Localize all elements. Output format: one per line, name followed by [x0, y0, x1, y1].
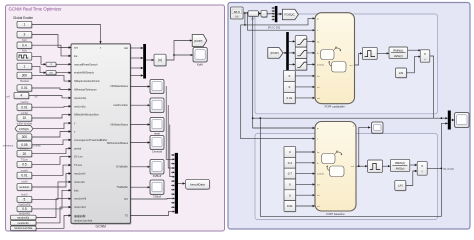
- wire junction to scope KpKi: [174, 54, 193, 56]
- svg-text:5: 5: [24, 198, 26, 202]
- constant 0.01 maxKp: [17, 104, 33, 111]
- svg-text:20: 20: [23, 152, 27, 156]
- svg-text:0.01: 0.01: [287, 204, 293, 208]
- svg-text:kidx0: kidx0: [21, 192, 28, 196]
- svg-text:0.5: 0.5: [22, 163, 27, 167]
- GCNM right port labels: [107, 46, 129, 218]
- svg-text:AVG(z): AVG(z): [394, 54, 403, 58]
- wire to GCNM: [36, 198, 71, 218]
- svg-text::: :: [264, 12, 265, 16]
- wire sat1 to chart: [307, 40, 315, 42]
- wire branch c: [170, 125, 171, 177]
- wire demux to sat1: [289, 40, 295, 42]
- constant 0.01: [17, 85, 33, 92]
- wire to baseline port1: [253, 13, 315, 129]
- svg-text:[FOP]: [FOP]: [194, 39, 202, 43]
- constant 5: [17, 196, 33, 203]
- svg-text:minLimKp: minLimKp: [74, 104, 86, 108]
- svg-text:ref: ref: [6, 95, 9, 99]
- wire to GCNM: [32, 189, 71, 209]
- svg-text:L/N: L/N: [399, 71, 404, 75]
- wire mux1 to abs: [146, 59, 154, 61]
- demux bar top: [286, 32, 289, 74]
- wire const top2 to chart: [295, 86, 315, 88]
- svg-text:300: 300: [22, 74, 28, 78]
- scope reset: [150, 118, 164, 132]
- svg-text:randomKp: randomKp: [17, 215, 30, 219]
- wire GCNM to mux1 in1: [130, 47, 143, 49]
- wire GCNM to mux1 in3: [130, 67, 143, 69]
- wire to GCNM: [36, 206, 71, 223]
- wire vertical Va: [244, 13, 246, 25]
- constant 0.7 bot3: [284, 168, 296, 180]
- wire branch b: [168, 105, 171, 168]
- svg-text:tym: tym: [74, 46, 78, 50]
- wire GCNM to scope reset: [130, 123, 150, 125]
- constant 10: [17, 115, 33, 122]
- junction: [244, 24, 246, 26]
- junction: [441, 117, 443, 119]
- wire quantizer2 to filter2: [382, 165, 390, 167]
- svg-text:1: 1: [24, 23, 26, 27]
- constant 0.01 maxKi: [17, 172, 33, 179]
- wire GCNM to scope DVBuff: [130, 166, 150, 168]
- svg-text:lambda: lambda: [317, 174, 325, 176]
- rate transition B: [46, 71, 57, 76]
- constant 0 bot4: [284, 179, 296, 191]
- quantizer block top: [362, 47, 377, 59]
- constant 1 Global Enable: [17, 21, 33, 28]
- selector block: [261, 10, 268, 18]
- svg-text:benchData: benchData: [190, 182, 205, 186]
- wire to GCNM: [32, 147, 71, 153]
- stateflow chart FOPI baseline: [315, 122, 356, 212]
- svg-text:RMIN(z): RMIN(z): [395, 161, 405, 165]
- wire const bot1 to chart: [296, 151, 315, 153]
- digital clock block: [231, 7, 244, 19]
- svg-text:[P1 IC DV]: [P1 IC DV]: [268, 25, 281, 29]
- svg-text:tsH: tsH: [124, 46, 128, 50]
- svg-text:0.01: 0.01: [21, 174, 27, 178]
- wire sat3 to chart: [307, 63, 315, 65]
- wire selector to mux3: [267, 13, 272, 15]
- junction: [252, 117, 254, 119]
- constant 0.5 b: [17, 206, 33, 212]
- constant 300 b: [17, 134, 33, 141]
- wire mux2 to benchData: [178, 182, 185, 184]
- svg-text:P1 IC DV: P1 IC DV: [444, 168, 455, 171]
- wire to GCNM: [32, 114, 71, 119]
- scope KpKi: [193, 48, 207, 63]
- GCNM input port arrows: [69, 46, 72, 216]
- svg-text:0.01: 0.01: [21, 105, 27, 109]
- wire filter1 to xy1: [408, 49, 421, 51]
- constant 0.05: [17, 141, 33, 149]
- wire to GCNM: [29, 96, 71, 100]
- svg-text:Global Enable: Global Enable: [13, 16, 33, 20]
- saturation block 3: [295, 59, 307, 71]
- wire to GCNM: [32, 181, 71, 200]
- svg-text:period: period: [74, 146, 82, 150]
- wire const bot6 to chart: [296, 205, 315, 207]
- junction: [259, 117, 261, 119]
- wire GCNM to mux1 in4: [130, 74, 143, 76]
- svg-text:kick: kick: [22, 49, 27, 53]
- svg-text:3: 3: [24, 33, 26, 37]
- wire to GCNM: [32, 45, 71, 57]
- svg-text:NMStateStatus: NMStateStatus: [111, 84, 129, 88]
- chart baseline port labels: [317, 126, 355, 208]
- junction: [173, 54, 175, 56]
- svg-text:minKp: minKp: [21, 111, 29, 115]
- svg-text:300: 300: [22, 135, 28, 139]
- svg-text:TSsBuffer: TSsBuffer: [117, 185, 129, 189]
- wire LN to xy1: [407, 56, 421, 73]
- constant 0 bot5: [284, 190, 296, 202]
- wire to GCNM: [32, 75, 71, 82]
- svg-text:0.05: 0.05: [21, 143, 27, 147]
- wire GCNM to scope TSBuff: [130, 186, 150, 188]
- wire to GCNM: [32, 164, 71, 176]
- svg-text:out: out: [351, 165, 354, 168]
- wire GCNM to scope Centroid: [130, 141, 150, 143]
- svg-text:FOSQC: FOSQC: [284, 13, 294, 17]
- wire GCNM to mux1 in2: [130, 57, 143, 59]
- wire sat2 to chart: [307, 52, 315, 54]
- svg-text:minLimKi: minLimKi: [74, 180, 85, 184]
- svg-text:0.01: 0.01: [286, 96, 292, 100]
- svg-text:randomLambda: randomLambda: [74, 219, 93, 223]
- goto tag FOP: [192, 35, 207, 47]
- constant 4: [14, 92, 30, 99]
- svg-text:[FOP]: [FOP]: [271, 51, 279, 55]
- wire const bot4 to chart: [296, 183, 315, 185]
- wire const top3 to chart: [295, 97, 315, 99]
- junction: [247, 12, 249, 14]
- wire rtB to GCNM: [56, 72, 71, 74]
- svg-text:reference: reference: [3, 145, 14, 148]
- svg-text:÷: ÷: [424, 58, 426, 62]
- svg-text:NMoptimizationPeriod: NMoptimizationPeriod: [74, 79, 100, 83]
- mux2 input arrows: [171, 154, 175, 213]
- svg-text:Kp0: Kp0: [22, 38, 27, 42]
- quantizer block bottom: [368, 160, 383, 172]
- wire to GCNM: [33, 122, 71, 129]
- block randomLambda: [11, 226, 37, 232]
- saturation block 1: [295, 36, 307, 48]
- abs block: [154, 54, 167, 66]
- block LN top: [396, 68, 408, 79]
- wire branch up to scope baseline: [359, 126, 371, 166]
- svg-text:out: out: [349, 64, 352, 67]
- svg-text:NMbufferWindowSize: NMbufferWindowSize: [74, 113, 99, 117]
- scope baseline: [372, 122, 383, 133]
- divide block bottom: [417, 162, 427, 176]
- svg-text:maxKp: maxKp: [20, 100, 29, 104]
- svg-text:1: 1: [24, 65, 26, 69]
- wire branch a: [166, 86, 171, 159]
- wire TS to mux2: [130, 211, 171, 215]
- svg-text:lambdaC: lambdaC: [19, 186, 29, 189]
- wire quantizer1 to filter1: [377, 52, 389, 54]
- wire to GCNM: [36, 214, 71, 228]
- left panel GCNM Real Time Optimizer: [6, 5, 225, 231]
- constant 0.5: [17, 161, 33, 168]
- svg-text:maxKi: maxKi: [21, 168, 29, 172]
- svg-text:88:8: 88:8: [234, 10, 240, 14]
- scope result: [455, 113, 469, 128]
- constant 0.4: [17, 42, 33, 49]
- rate transition C: [248, 11, 259, 17]
- wire to updatable port2: [248, 13, 316, 31]
- svg-text:minLimKd: minLimKd: [74, 205, 86, 209]
- wire const top1 to chart: [295, 75, 315, 77]
- svg-text:NMStateStatus: NMStateStatus: [111, 123, 129, 127]
- svg-text:FOPI updatable: FOPI updatable: [325, 104, 346, 108]
- svg-text:TS: TS: [125, 214, 129, 218]
- wire mux4 to scope result: [451, 119, 455, 121]
- wire abs to goto FOP: [166, 39, 192, 60]
- svg-text:DV: DV: [124, 197, 128, 201]
- rate transition A: [46, 62, 57, 67]
- wire const bot5 to chart: [296, 194, 315, 196]
- constant 0.4 bot2: [284, 157, 296, 169]
- wire to GCNM: [32, 88, 71, 91]
- svg-text:randomKi: randomKi: [74, 215, 86, 219]
- svg-text:L/N: L/N: [398, 184, 403, 188]
- scope s1: [150, 80, 164, 94]
- wire clock out: [243, 12, 248, 14]
- mux3 input arrows: [272, 7, 275, 21]
- scope TSBuff: [150, 180, 164, 195]
- constant lambdaC: [17, 184, 33, 192]
- svg-text:0.4: 0.4: [288, 161, 293, 165]
- svg-text:costFunction: costFunction: [113, 103, 128, 107]
- svg-text:TSBuff: TSBuff: [153, 195, 161, 199]
- wire to GCNM: [32, 139, 71, 145]
- svg-text:DVBuff: DVBuff: [153, 174, 162, 178]
- discrete filter block bottom: [390, 159, 409, 171]
- svg-text:÷: ÷: [421, 170, 423, 174]
- wire to baseline port2: [241, 25, 315, 140]
- wire pulse to rtA: [32, 56, 46, 65]
- wire baseline out2 to quantizer2: [356, 165, 368, 167]
- wire to GCNM: [32, 172, 71, 187]
- wire to GCNM: [32, 105, 71, 107]
- block LN bottom: [395, 181, 407, 192]
- svg-text:10: 10: [23, 116, 27, 120]
- constant 3 bot1: [284, 147, 296, 159]
- svg-text:DVsBuffer: DVsBuffer: [116, 165, 128, 169]
- svg-text:minKi: minKi: [21, 179, 28, 183]
- svg-text:TS Lim: TS Lim: [74, 163, 82, 167]
- constant 0 top2: [284, 81, 296, 93]
- block randomKp: [11, 215, 37, 221]
- svg-text:4: 4: [21, 94, 23, 98]
- svg-text:tol: tol: [35, 95, 38, 99]
- svg-text:0.7: 0.7: [288, 172, 293, 176]
- junction: [244, 12, 246, 14]
- stateflow chart FOPI updatable: [315, 13, 355, 104]
- area rect top: [255, 14, 438, 114]
- svg-text:Period: Period: [20, 79, 29, 83]
- svg-text:0.4: 0.4: [22, 43, 27, 47]
- from tag FOP: [268, 48, 283, 59]
- wire const bot2 to chart: [296, 162, 315, 164]
- wire const1 to port x: [32, 25, 102, 44]
- constant 20: [17, 150, 33, 157]
- svg-text:0.01: 0.01: [21, 86, 27, 90]
- wire chart1 to quantizer1: [355, 52, 363, 65]
- scope DVBuff: [150, 160, 164, 175]
- scope Centroid: [150, 136, 164, 150]
- svg-text:|u|: |u|: [158, 58, 162, 62]
- svg-text:buffer window: buffer window: [17, 123, 33, 126]
- svg-text:DV Lim: DV Lim: [74, 155, 83, 159]
- subsystem GCNM: [71, 44, 131, 225]
- constant 0 top1: [284, 70, 296, 82]
- wire to GCNM: [32, 130, 71, 137]
- wire to GCNM: [32, 156, 71, 165]
- wire const bot3 to chart: [296, 172, 315, 174]
- wire demux to sat3: [289, 63, 295, 65]
- wire GCNM to scope s1: [130, 85, 150, 87]
- svg-text:maxLimKi: maxLimKi: [74, 172, 86, 176]
- wire to GCNM: [32, 35, 71, 49]
- svg-text:AVG(z): AVG(z): [396, 167, 405, 171]
- wire LN2 to divide2: [406, 170, 417, 186]
- wire GCNM to scope s2: [130, 104, 150, 106]
- svg-text:kidx: kidx: [74, 188, 79, 192]
- saturation block 2: [295, 47, 307, 59]
- goto tag FOSQC: [282, 9, 298, 19]
- discrete filter block top: [389, 47, 408, 59]
- chart updatable port labels: [317, 17, 353, 100]
- svg-text:enableNMSearch: enableNMSearch: [74, 71, 95, 75]
- constant 0.01 bot6: [284, 201, 296, 213]
- constant 300: [17, 72, 33, 79]
- svg-text:cvt: cvt: [49, 72, 52, 75]
- svg-text:maxLimKp: maxLimKp: [74, 96, 87, 100]
- svg-text:randomLambda: randomLambda: [14, 226, 33, 230]
- wire P1 to updatable port1: [245, 17, 315, 25]
- mux bar 1: [143, 44, 146, 79]
- wire divide2 out: [427, 167, 441, 169]
- svg-text:RMIN(z): RMIN(z): [393, 49, 403, 53]
- svg-text:FOPI baseline: FOPI baseline: [326, 212, 345, 216]
- wire rtA to GCNM: [56, 63, 71, 65]
- constant 1 b: [17, 63, 33, 70]
- wire demux to sat2: [289, 52, 295, 54]
- mux bar 3: [275, 6, 278, 22]
- wire filter2 to divide2: [410, 164, 417, 166]
- divide block top: [420, 50, 430, 62]
- svg-text:lambda: lambda: [317, 64, 325, 66]
- junction: [358, 165, 360, 167]
- constant 0.01 top3: [284, 92, 296, 104]
- svg-text:NMrestartTolerance: NMrestartTolerance: [74, 88, 97, 92]
- pulse generator: [17, 53, 32, 61]
- constant 3: [17, 31, 33, 38]
- svg-text:Centroid: Centroid: [152, 150, 163, 154]
- wire long middle to mux4: [253, 117, 448, 119]
- GCNM left port labels: [74, 46, 107, 223]
- svg-text:KpKi: KpKi: [197, 63, 203, 67]
- wire DV to mux2: [130, 198, 171, 201]
- mux bar 2: [175, 153, 178, 214]
- right panel: [228, 3, 470, 230]
- wire rtC to selector: [258, 12, 261, 14]
- wire divide1 down: [430, 56, 434, 118]
- scope s2: [150, 98, 164, 113]
- block benchData: [186, 179, 211, 190]
- svg-text:maxLimKd: maxLimKd: [74, 197, 87, 201]
- svg-text:0.5: 0.5: [22, 207, 27, 211]
- data store read FOSQC: [15, 126, 33, 132]
- area rect bottom: [255, 134, 438, 220]
- svg-text:GCNM: GCNM: [96, 225, 107, 229]
- svg-text:kia: kia: [74, 54, 78, 58]
- svg-text:convergenceThresholdBuffer: convergenceThresholdBuffer: [74, 138, 107, 142]
- svg-text:manualResetSearch: manualResetSearch: [74, 62, 98, 66]
- wire FOP to demux: [283, 52, 287, 54]
- mux bar 4: [448, 111, 451, 130]
- wire mux3 to goto FOSQC: [277, 13, 282, 15]
- svg-text:randomKi: randomKi: [18, 221, 30, 225]
- block randomKi: [11, 221, 37, 227]
- svg-text:GCNM Real Time Optimizer: GCNM Real Time Optimizer: [9, 7, 63, 12]
- wire bottom loop to mux4: [260, 118, 448, 216]
- wire const1b to rtB: [32, 66, 46, 74]
- svg-text:NMCentroidStatus: NMCentroidStatus: [107, 141, 129, 145]
- svg-text:reset: reset: [154, 132, 160, 136]
- junction: [441, 168, 443, 170]
- svg-text:FOSQC: FOSQC: [19, 127, 29, 131]
